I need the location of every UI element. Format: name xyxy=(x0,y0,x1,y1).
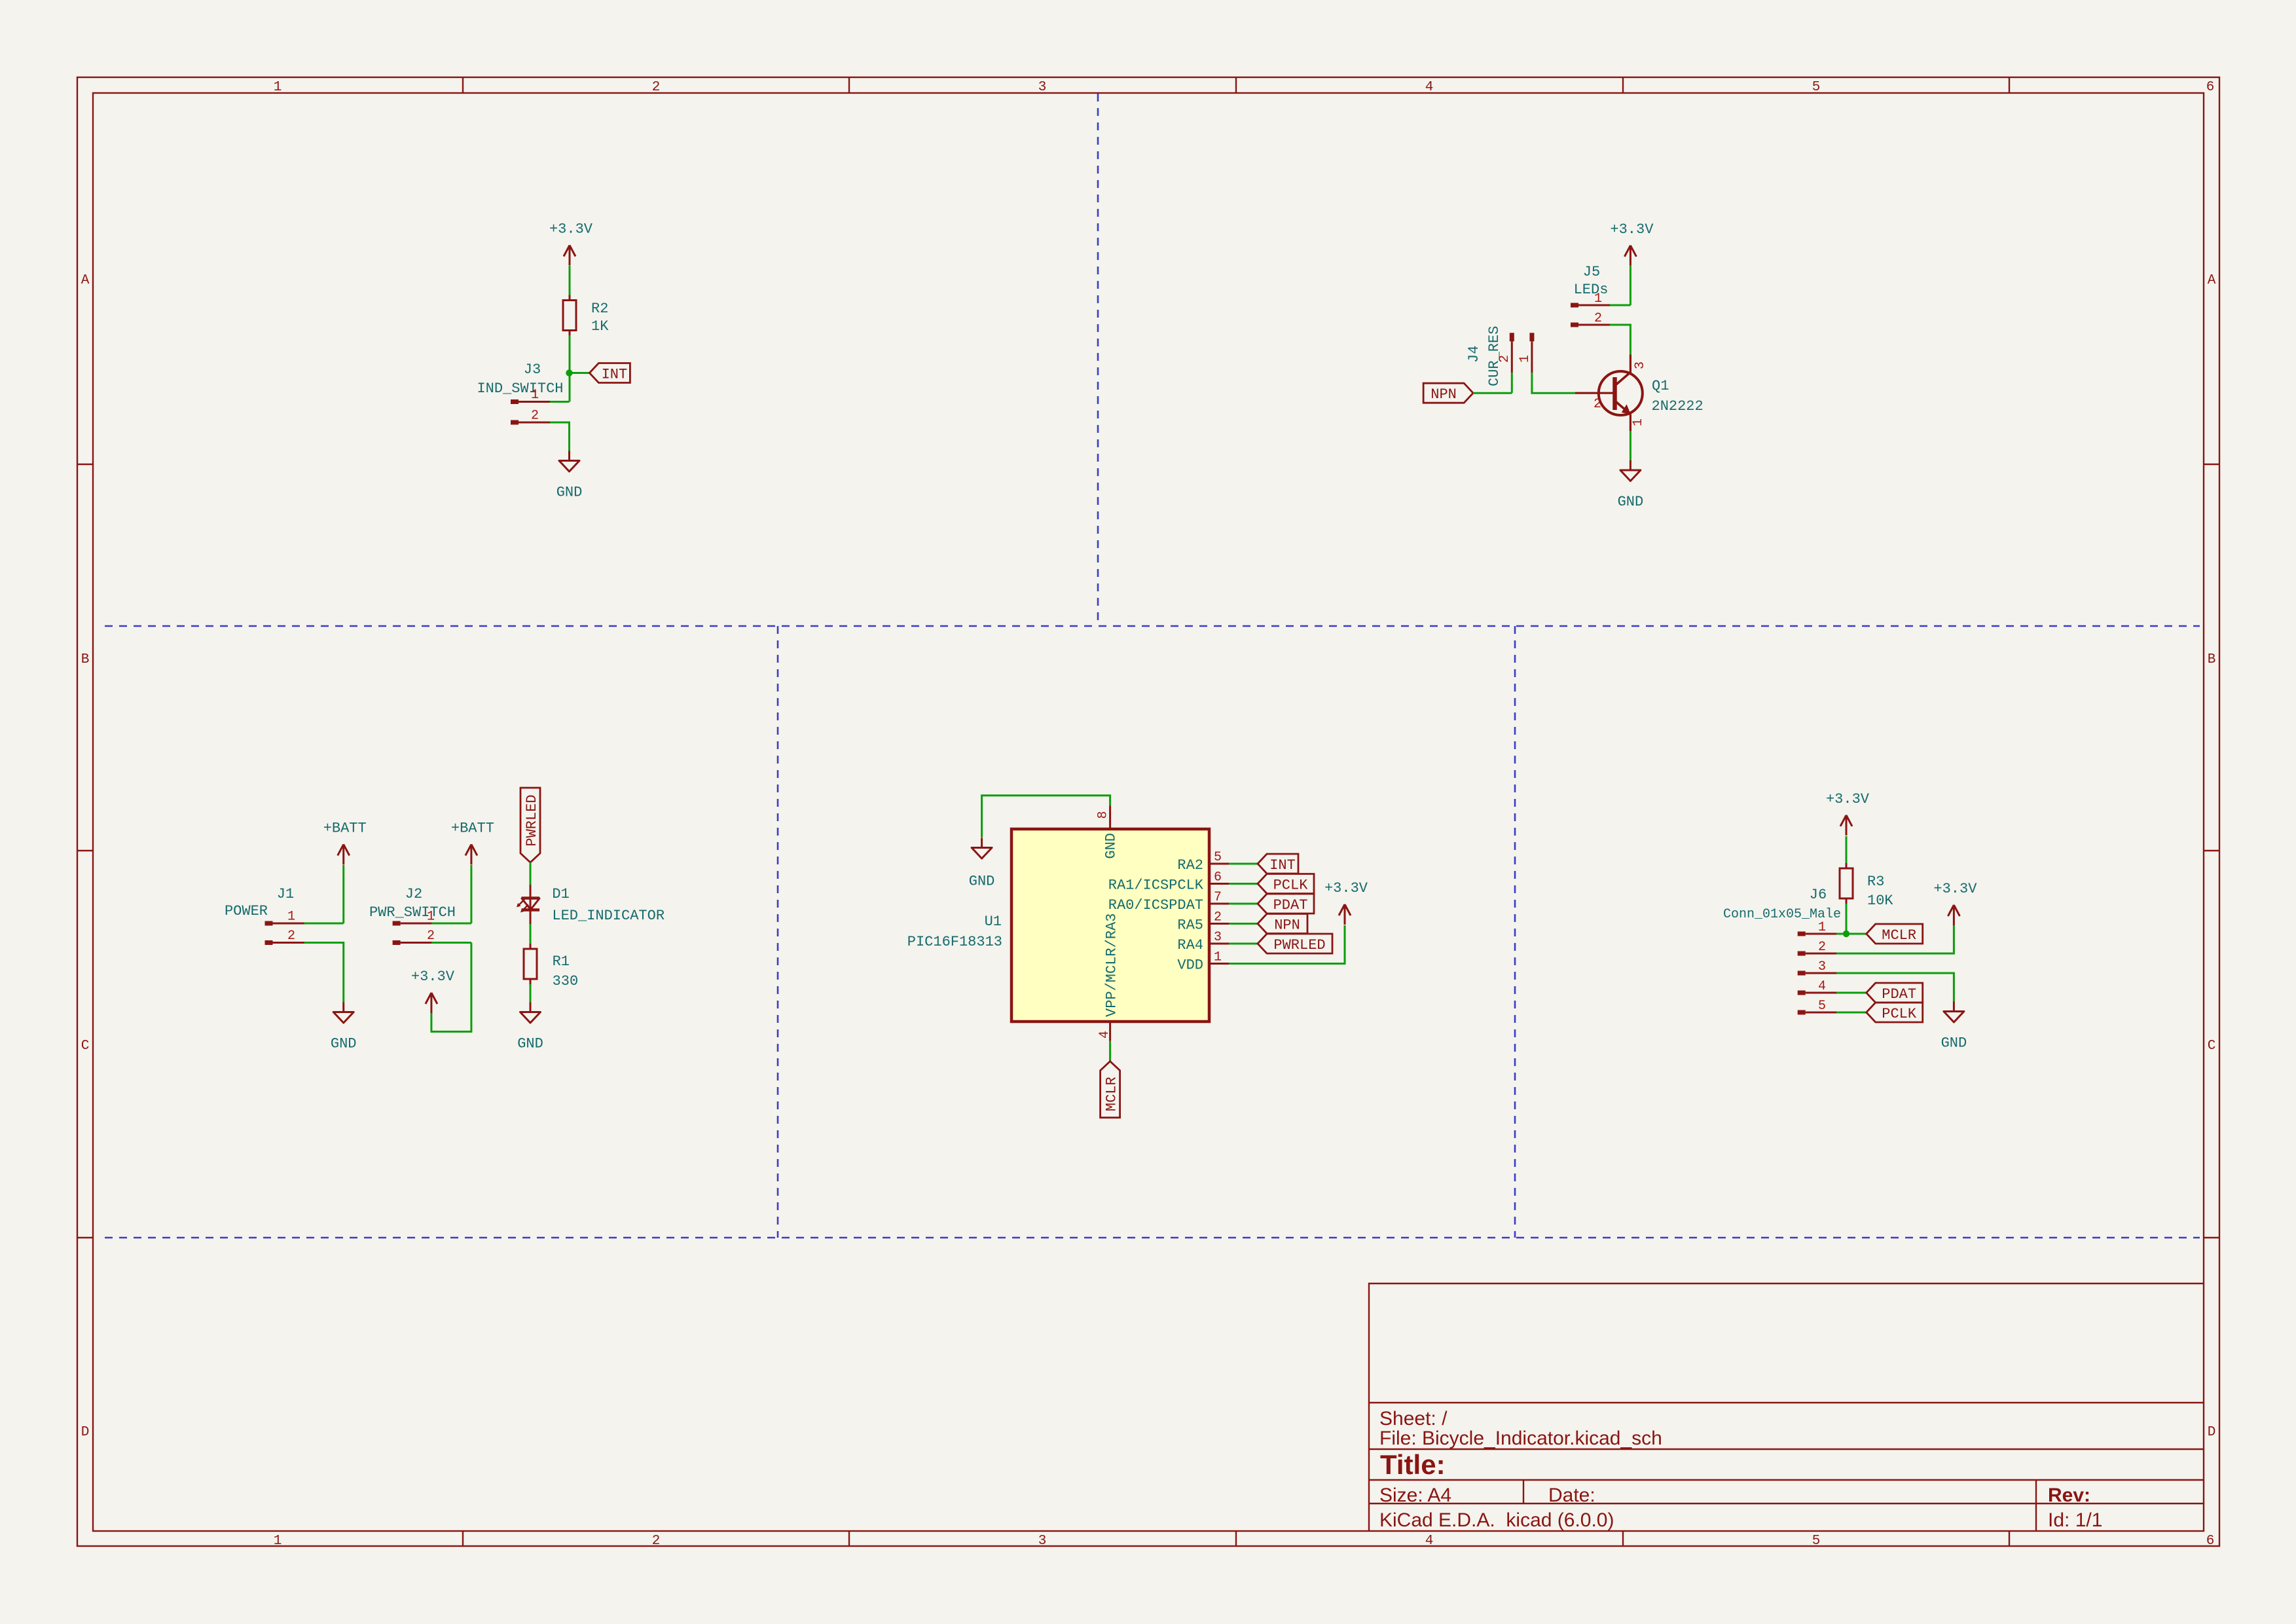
wire U1 RA5 to NPN label xyxy=(1229,923,1258,925)
junction node R2-J3-INT xyxy=(566,369,572,376)
svg-text:A: A xyxy=(81,273,90,288)
svg-text:PDAT: PDAT xyxy=(1273,897,1308,913)
svg-text:6: 6 xyxy=(2206,1534,2215,1549)
svg-text:PIC16F18313: PIC16F18313 xyxy=(907,934,1002,950)
connector J6 Conn_01x05_Male xyxy=(1723,887,1841,922)
svg-text:POWER: POWER xyxy=(225,903,268,919)
frame row tick y=1890 left xyxy=(77,1237,93,1238)
J3 pin 1 xyxy=(511,399,550,404)
svg-text:1K: 1K xyxy=(591,318,609,335)
svg-text:1: 1 xyxy=(274,80,282,95)
U1 pin 4 VPP/MCLR/RA3 (bottom) xyxy=(1097,913,1120,1041)
svg-text:GND: GND xyxy=(1618,494,1644,510)
svg-text:J6: J6 xyxy=(1810,887,1827,903)
svg-text:1: 1 xyxy=(1214,950,1222,965)
wire J1 pin1 to +BATT column xyxy=(304,923,344,925)
svg-text:Size: A4: Size: A4 xyxy=(1379,1485,1451,1506)
power symbol +BATT (above J2) xyxy=(451,820,494,864)
frame row tick y=709 left xyxy=(77,464,93,465)
wire J3 pin2 to GND xyxy=(550,422,570,451)
svg-text:3: 3 xyxy=(1214,930,1222,945)
svg-text:PDAT: PDAT xyxy=(1882,986,1916,1003)
svg-text:U1: U1 xyxy=(985,913,1002,930)
frame column tick x=1297 bottom xyxy=(848,1531,850,1547)
resistor R2 1K (R2 1K pull-up) xyxy=(563,295,609,336)
J4 pin 1 xyxy=(1529,333,1534,373)
J6 pin 4 xyxy=(1798,991,1837,995)
svg-text:VDD: VDD xyxy=(1177,957,1203,974)
connector J4 CUR_RES xyxy=(1466,326,1503,386)
svg-text:KiCad E.D.A. kicad (6.0.0): KiCad E.D.A. kicad (6.0.0) xyxy=(1379,1509,1614,1531)
title block divider Rev/Id xyxy=(2035,1480,2037,1531)
ground symbol (below J3) xyxy=(556,451,583,501)
svg-text:7: 7 xyxy=(1214,890,1222,905)
junction node R3-J6-MCLR xyxy=(1843,931,1850,937)
wire J6 pin5 to PCLK label xyxy=(1836,1012,1867,1014)
svg-text:6: 6 xyxy=(1214,870,1222,885)
partition dashed line vertical top-center xyxy=(1097,94,1099,626)
svg-text:+BATT: +BATT xyxy=(451,820,494,836)
wire Q1 emitter to GND xyxy=(1630,431,1631,460)
ground symbol (below J1) xyxy=(331,1003,357,1052)
svg-text:+3.3V: +3.3V xyxy=(549,221,593,238)
svg-text:+3.3V: +3.3V xyxy=(1610,221,1654,238)
global label PCLK (net PCLK at J6) xyxy=(1867,1003,1923,1022)
connector J3 IND_SWITCH xyxy=(477,361,563,397)
svg-text:5: 5 xyxy=(1818,999,1826,1014)
wire J5 pin1 to power column xyxy=(1610,304,1630,306)
svg-text:J4: J4 xyxy=(1466,346,1482,363)
wire U1 pin8 to GND symbol xyxy=(982,796,1110,838)
resistor R1 330 (R1 330 LED resistor) xyxy=(524,944,578,989)
svg-text:LEDs: LEDs xyxy=(1574,282,1609,298)
global label INT (net INT at J3) xyxy=(589,363,630,383)
frame column tick x=1297 top xyxy=(848,77,850,93)
wire U1 pin4 to MCLR label xyxy=(1109,1041,1111,1061)
J3 pin 2 xyxy=(511,420,550,425)
svg-text:Q1: Q1 xyxy=(1652,378,1669,394)
J4 pin 2 xyxy=(1510,333,1514,373)
frame column tick x=2479 bottom xyxy=(1622,1531,1624,1547)
svg-text:5: 5 xyxy=(1812,80,1821,95)
wire U1 RA1/ICSPCLK to PCLK label xyxy=(1229,883,1258,885)
svg-text:INT: INT xyxy=(602,367,628,383)
global label MCLR (net MCLR at J6) xyxy=(1867,924,1923,944)
svg-text:+3.3V: +3.3V xyxy=(411,969,455,985)
power symbol +3.3V (below J2) xyxy=(411,969,455,1013)
svg-text:2: 2 xyxy=(652,80,661,95)
svg-text:GND: GND xyxy=(1103,833,1120,859)
svg-text:D1: D1 xyxy=(552,886,569,902)
svg-text:J1: J1 xyxy=(277,886,294,902)
LED D1 LED_INDICATOR xyxy=(517,885,665,924)
svg-text:2: 2 xyxy=(652,1534,661,1549)
J1 pin 2 xyxy=(265,940,304,945)
svg-text:RA5: RA5 xyxy=(1177,917,1203,934)
svg-text:+BATT: +BATT xyxy=(323,820,367,836)
svg-text:2: 2 xyxy=(1594,311,1602,326)
wire +3.3V to R2 xyxy=(569,266,571,296)
wire PWRLED to D1 anode xyxy=(530,862,532,885)
svg-text:PCLK: PCLK xyxy=(1273,877,1309,894)
global label PWRLED (net PWRLED above D1) xyxy=(520,788,540,862)
svg-text:Rev:: Rev: xyxy=(2048,1485,2090,1506)
title block outline xyxy=(1369,1283,2204,1531)
frame row tick y=1890 right xyxy=(2204,1237,2219,1238)
frame column tick x=1888 bottom xyxy=(1235,1531,1237,1547)
svg-text:10K: 10K xyxy=(1867,893,1893,909)
global label PCLK (net PCLK at U1) xyxy=(1258,874,1314,894)
svg-text:330: 330 xyxy=(553,973,579,989)
svg-text:Id: 1/1: Id: 1/1 xyxy=(2048,1509,2102,1531)
connector J2 PWR_SWITCH xyxy=(369,886,456,921)
svg-text:1: 1 xyxy=(287,910,295,925)
svg-text:R1: R1 xyxy=(553,953,570,970)
frame column tick x=3069 bottom xyxy=(2009,1531,2010,1547)
svg-text:2: 2 xyxy=(1497,355,1512,363)
J6 pin 2 xyxy=(1798,951,1837,956)
ground symbol (below Q1) xyxy=(1618,460,1644,510)
connector J1 POWER xyxy=(225,886,294,919)
svg-text:Title:: Title: xyxy=(1380,1449,1446,1480)
J5 pin 1 xyxy=(1571,303,1610,308)
svg-text:PCLK: PCLK xyxy=(1882,1006,1917,1022)
svg-text:1: 1 xyxy=(1594,291,1602,306)
wire U1 RA0/ICSPDAT to PDAT label xyxy=(1229,903,1258,905)
connector J5 LEDs xyxy=(1574,264,1609,298)
global label NPN (net NPN at U1) xyxy=(1258,914,1307,934)
partition dashed line horizontal lower xyxy=(105,1237,2200,1239)
svg-text:4: 4 xyxy=(1818,979,1826,994)
svg-text:PWRLED: PWRLED xyxy=(1273,937,1325,953)
U1 pin 7 RA0/ICSPDAT xyxy=(1108,890,1229,913)
svg-text:Date:: Date: xyxy=(1548,1485,1595,1506)
transistor Q1 2N2222 xyxy=(1575,355,1704,432)
wire J6 pin4 to PDAT label xyxy=(1836,992,1867,994)
U1 pin 6 RA1/ICSPCLK xyxy=(1108,870,1229,894)
partition dashed line vertical mid-left xyxy=(777,626,779,1238)
wire D1 cathode to R1 xyxy=(530,924,532,945)
svg-text:RA1/ICSPCLK: RA1/ICSPCLK xyxy=(1108,877,1204,894)
svg-text:1: 1 xyxy=(274,1534,282,1549)
wire +3.3V to R3 xyxy=(1846,836,1848,864)
frame column tick x=1888 top xyxy=(1235,77,1237,93)
power symbol +3.3V (at U1 VDD) xyxy=(1324,880,1368,925)
wire J2 pin2 to +3.3V xyxy=(431,943,471,1032)
U1 pin 5 RA2 xyxy=(1177,850,1229,874)
global label INT (net INT at U1) xyxy=(1258,854,1298,874)
svg-text:2: 2 xyxy=(1818,940,1826,955)
U1 pin 3 RA4 xyxy=(1177,930,1229,953)
svg-text:NPN: NPN xyxy=(1430,386,1457,403)
title block row line above Sheet xyxy=(1369,1402,2204,1403)
global label NPN (net NPN at Q1 base) xyxy=(1423,383,1473,403)
ground symbol (left of U1) xyxy=(969,838,995,890)
svg-text:IND_SWITCH: IND_SWITCH xyxy=(477,380,563,397)
svg-text:RA2: RA2 xyxy=(1177,857,1203,874)
frame column tick x=3069 top xyxy=(2009,77,2010,93)
J5 pin 2 xyxy=(1571,323,1610,327)
wire U1 RA4 to PWRLED label xyxy=(1229,943,1258,945)
svg-text:Sheet: /: Sheet: / xyxy=(1379,1408,1448,1430)
svg-text:GND: GND xyxy=(969,874,995,890)
wire J6 pin3 to GND xyxy=(1836,973,1954,1002)
wire R2 to J3 pin1 / junction xyxy=(569,335,571,402)
frame column tick x=2479 top xyxy=(1622,77,1624,93)
wire U1 VDD to +3.3V xyxy=(1229,925,1345,964)
svg-text:A: A xyxy=(2208,273,2216,288)
svg-text:5: 5 xyxy=(1812,1534,1821,1549)
svg-text:GND: GND xyxy=(331,1036,357,1052)
wire R3 to J6 pin1 xyxy=(1846,904,1848,934)
wire +3.3V to J5 pin1 xyxy=(1630,266,1631,305)
svg-text:PWRLED: PWRLED xyxy=(524,794,540,846)
svg-text:B: B xyxy=(2208,652,2216,667)
J6 pin 1 xyxy=(1798,932,1837,936)
svg-text:C: C xyxy=(2208,1039,2216,1054)
svg-text:2: 2 xyxy=(427,929,435,944)
frame column tick x=707 top xyxy=(462,77,464,93)
svg-text:3: 3 xyxy=(1038,1534,1047,1549)
svg-text:GND: GND xyxy=(1941,1035,1967,1052)
svg-text:R3: R3 xyxy=(1867,874,1884,890)
J1 pin 1 xyxy=(265,921,304,926)
svg-text:3: 3 xyxy=(1818,959,1826,974)
svg-text:MCLR: MCLR xyxy=(1882,927,1916,944)
J6 pin 3 xyxy=(1798,971,1837,976)
U1 pin 1 VDD xyxy=(1177,950,1229,974)
wire J1 pin2 to GND xyxy=(304,943,344,1003)
title block row line below Title xyxy=(1369,1479,2204,1481)
svg-text:PWR_SWITCH: PWR_SWITCH xyxy=(369,904,456,921)
svg-text:4: 4 xyxy=(1425,80,1434,95)
svg-text:GND: GND xyxy=(556,485,583,501)
partition dashed line vertical mid-right xyxy=(1514,626,1516,1238)
partition dashed line horizontal upper xyxy=(105,625,2200,627)
wire J5 pin2 to Q1 collector xyxy=(1610,325,1630,355)
global label MCLR (net MCLR below U1) xyxy=(1101,1061,1120,1118)
svg-text:RA4: RA4 xyxy=(1177,937,1203,953)
title block row line above Title xyxy=(1369,1449,2204,1450)
svg-text:+3.3V: +3.3V xyxy=(1826,791,1870,807)
title block row line below Size/Date xyxy=(1369,1503,2204,1504)
ground symbol (below R1) xyxy=(517,1003,543,1052)
frame row tick y=1299 right xyxy=(2204,850,2219,851)
svg-text:3: 3 xyxy=(1633,361,1648,369)
power symbol +3.3V (above J5) xyxy=(1610,221,1654,266)
power symbol +3.3V (at J6 pin2) xyxy=(1933,881,1977,925)
svg-text:1: 1 xyxy=(1631,418,1646,426)
svg-text:D: D xyxy=(2208,1425,2216,1440)
wire J2 pin2 out xyxy=(432,942,471,944)
global label PDAT (net PDAT at U1) xyxy=(1258,894,1314,913)
wire J2 pin1 to +BATT column xyxy=(432,923,471,925)
global label PWRLED (net PWRLED at U1) xyxy=(1258,934,1332,953)
U1 pin 2 RA5 xyxy=(1177,910,1229,934)
wire J3 pin1 to junction column xyxy=(550,401,570,403)
global label PDAT (net PDAT at J6) xyxy=(1867,983,1923,1003)
svg-text:4: 4 xyxy=(1097,1031,1112,1039)
svg-text:2: 2 xyxy=(1594,397,1601,412)
IC U1 PIC16F18313 body xyxy=(1011,829,1209,1022)
svg-text:NPN: NPN xyxy=(1274,917,1300,934)
svg-text:+3.3V: +3.3V xyxy=(1324,880,1368,896)
frame column tick x=707 bottom xyxy=(462,1531,464,1547)
power symbol +BATT (above J1) xyxy=(323,820,367,864)
J2 pin 2 xyxy=(393,940,432,945)
J2 pin 1 xyxy=(393,921,432,926)
U1 reference and value xyxy=(907,913,1002,950)
wire J6 pin2 to +3.3V xyxy=(1836,925,1954,953)
title block divider Size/Date xyxy=(1523,1480,1524,1504)
svg-text:J2: J2 xyxy=(405,886,422,902)
svg-text:LED_INDICATOR: LED_INDICATOR xyxy=(552,908,665,924)
svg-text:1: 1 xyxy=(427,910,435,925)
power symbol +3.3V (above R3) xyxy=(1826,791,1870,836)
svg-text:1: 1 xyxy=(531,388,539,403)
frame row tick y=1299 left xyxy=(77,850,93,851)
svg-text:4: 4 xyxy=(1425,1534,1434,1549)
svg-text:1: 1 xyxy=(1518,355,1533,363)
svg-text:1: 1 xyxy=(1818,920,1826,935)
svg-text:R2: R2 xyxy=(591,301,608,317)
svg-text:RA0/ICSPDAT: RA0/ICSPDAT xyxy=(1108,897,1203,913)
svg-text:MCLR: MCLR xyxy=(1104,1077,1120,1111)
wire J4 pin1 to Q1 base xyxy=(1532,373,1575,393)
svg-text:File: Bicycle_Indicator.kicad_: File: Bicycle_Indicator.kicad_sch xyxy=(1379,1428,1662,1449)
svg-text:GND: GND xyxy=(517,1036,543,1052)
svg-text:2: 2 xyxy=(287,929,295,944)
U1 pin 8 GND (top) xyxy=(1096,806,1120,859)
wire junction to INT label xyxy=(570,372,590,374)
frame row tick y=709 right xyxy=(2204,464,2219,465)
svg-text:J3: J3 xyxy=(524,361,541,378)
resistor R3 10K (R3 10K pull-up) xyxy=(1840,863,1893,909)
svg-text:5: 5 xyxy=(1214,850,1222,865)
svg-text:D: D xyxy=(81,1425,90,1440)
wire +BATT to J1 pin1 xyxy=(342,865,344,923)
svg-text:8: 8 xyxy=(1096,811,1111,819)
svg-text:INT: INT xyxy=(1269,857,1296,874)
wire +BATT to J2 pin1 xyxy=(470,865,472,923)
svg-text:2: 2 xyxy=(531,409,539,424)
svg-text:B: B xyxy=(81,652,90,667)
svg-text:C: C xyxy=(81,1039,90,1054)
wire U1 RA2 to INT label xyxy=(1229,863,1258,865)
svg-text:J5: J5 xyxy=(1583,264,1600,280)
svg-text:2: 2 xyxy=(1214,910,1222,925)
ground symbol (below J6 pin3) xyxy=(1941,1002,1967,1052)
svg-text:VPP/MCLR/RA3: VPP/MCLR/RA3 xyxy=(1104,913,1120,1017)
wire J4 pin2 stub xyxy=(1511,373,1513,393)
svg-text:6: 6 xyxy=(2206,80,2215,95)
wire R1 to GND xyxy=(530,984,532,1003)
svg-text:+3.3V: +3.3V xyxy=(1933,881,1977,897)
power symbol +3.3V (above R2) xyxy=(549,221,593,266)
svg-text:3: 3 xyxy=(1038,80,1047,95)
svg-text:2N2222: 2N2222 xyxy=(1652,398,1704,415)
wire NPN label to J4 pin2 xyxy=(1473,392,1512,394)
J6 pin 5 xyxy=(1798,1010,1837,1015)
wire J6 pin1 to MCLR label xyxy=(1836,933,1867,935)
